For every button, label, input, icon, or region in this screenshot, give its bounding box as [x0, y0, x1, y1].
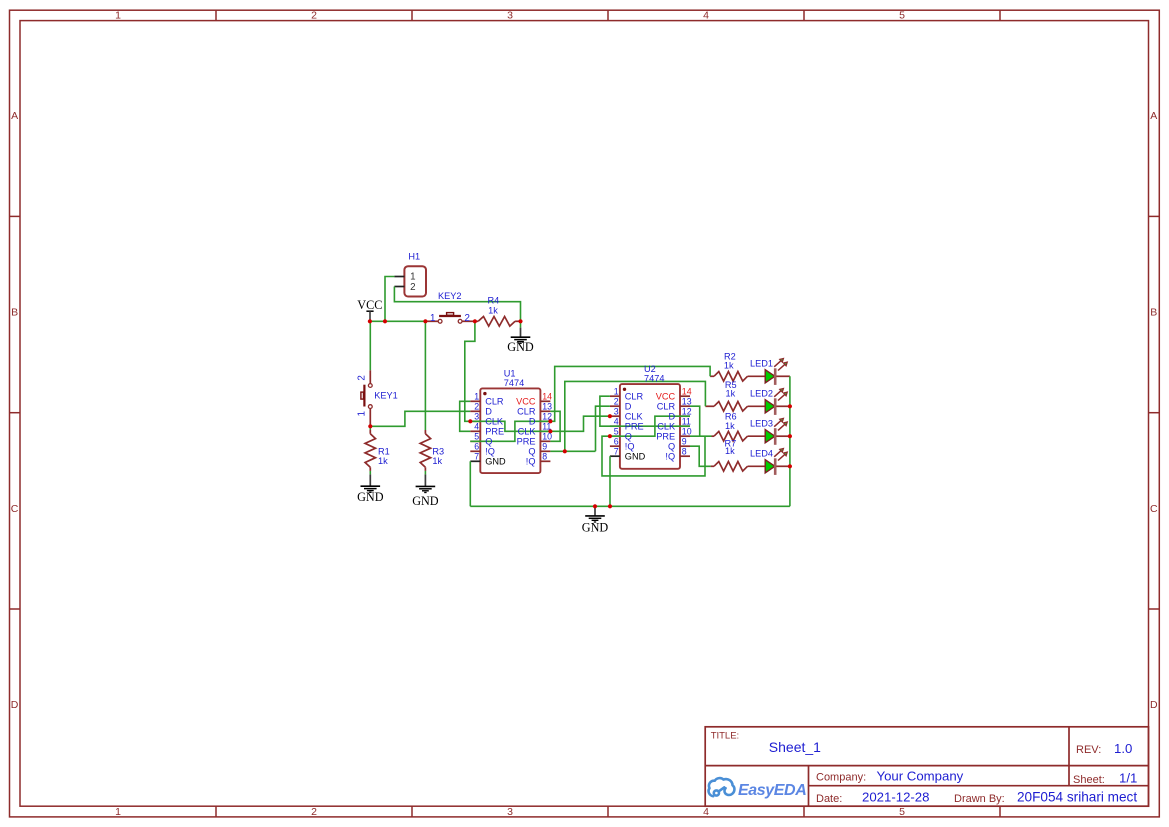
- svg-text:2: 2: [311, 806, 317, 818]
- svg-text:U2: U2: [644, 364, 656, 374]
- svg-text:CLR: CLR: [657, 402, 676, 412]
- svg-text:GND: GND: [485, 457, 506, 467]
- svg-text:4: 4: [703, 10, 709, 22]
- svg-text:LED4: LED4: [750, 449, 773, 459]
- svg-text:TITLE:: TITLE:: [711, 730, 740, 741]
- svg-text:Drawn By:: Drawn By:: [954, 793, 1005, 805]
- svg-text:PRE: PRE: [625, 422, 644, 432]
- svg-text:1: 1: [115, 806, 121, 818]
- svg-text:4: 4: [703, 806, 709, 818]
- svg-text:1k: 1k: [432, 456, 442, 466]
- svg-text:Sheet_1: Sheet_1: [769, 739, 821, 755]
- svg-text:1k: 1k: [725, 446, 735, 456]
- svg-text:!Q: !Q: [665, 452, 675, 462]
- svg-text:Company:: Company:: [816, 772, 866, 784]
- svg-text:12: 12: [682, 407, 692, 417]
- svg-text:2: 2: [410, 282, 415, 293]
- svg-text:7474: 7474: [504, 378, 524, 388]
- svg-text:2: 2: [614, 397, 619, 407]
- svg-text:9: 9: [542, 442, 547, 452]
- svg-text:CLR: CLR: [625, 392, 644, 402]
- svg-text:2: 2: [311, 10, 317, 22]
- svg-text:VCC: VCC: [516, 397, 536, 407]
- svg-text:B: B: [11, 307, 18, 319]
- svg-text:1: 1: [474, 392, 479, 402]
- svg-text:6: 6: [614, 437, 619, 447]
- svg-text:D: D: [529, 417, 536, 427]
- svg-text:D: D: [1150, 699, 1158, 711]
- svg-text:4: 4: [474, 422, 479, 432]
- svg-text:Date:: Date:: [816, 793, 842, 805]
- svg-text:1/1: 1/1: [1119, 771, 1137, 786]
- svg-text:14: 14: [682, 387, 692, 397]
- svg-text:14: 14: [542, 392, 552, 402]
- svg-text:1k: 1k: [726, 389, 736, 399]
- svg-text:CLK: CLK: [625, 412, 644, 422]
- svg-text:10: 10: [542, 432, 552, 442]
- svg-text:Q: Q: [668, 442, 675, 452]
- svg-text:Q: Q: [528, 447, 535, 457]
- svg-text:Your Company: Your Company: [877, 769, 964, 784]
- svg-text:Sheet:: Sheet:: [1073, 774, 1105, 786]
- svg-text:VCC: VCC: [656, 392, 676, 402]
- svg-text:!Q: !Q: [526, 457, 536, 467]
- svg-text:7: 7: [614, 447, 619, 457]
- svg-text:5: 5: [899, 10, 905, 22]
- svg-text:B: B: [1150, 307, 1157, 319]
- svg-text:CLK: CLK: [518, 427, 537, 437]
- svg-text:7: 7: [474, 452, 479, 462]
- svg-text:GND: GND: [412, 494, 439, 508]
- svg-text:R3: R3: [432, 446, 444, 456]
- svg-text:1: 1: [614, 387, 619, 397]
- svg-text:H1: H1: [408, 251, 420, 261]
- svg-text:2021-12-28: 2021-12-28: [862, 790, 929, 805]
- svg-text:11: 11: [542, 422, 551, 432]
- svg-text:CLR: CLR: [485, 397, 504, 407]
- svg-text:CLK: CLK: [657, 422, 676, 432]
- svg-text:8: 8: [542, 452, 547, 462]
- svg-text:1k: 1k: [724, 360, 734, 370]
- svg-text:CLK: CLK: [485, 417, 504, 427]
- svg-text:LED1: LED1: [750, 359, 773, 369]
- svg-text:4: 4: [614, 417, 619, 427]
- svg-text:20F054 srihari mect: 20F054 srihari mect: [1017, 790, 1137, 805]
- svg-text:D: D: [485, 407, 492, 417]
- svg-text:3: 3: [474, 412, 479, 422]
- svg-text:A: A: [11, 110, 18, 122]
- svg-text:3: 3: [614, 407, 619, 417]
- svg-text:C: C: [11, 503, 19, 515]
- svg-text:PRE: PRE: [485, 427, 504, 437]
- svg-text:1: 1: [430, 313, 435, 324]
- svg-text:GND: GND: [625, 452, 646, 462]
- svg-text:5: 5: [614, 427, 619, 437]
- svg-text:U1: U1: [504, 369, 516, 379]
- svg-text:!Q: !Q: [625, 442, 635, 452]
- svg-text:REV:: REV:: [1076, 744, 1101, 756]
- svg-text:PRE: PRE: [517, 437, 536, 447]
- svg-text:3: 3: [507, 10, 513, 22]
- svg-text:13: 13: [682, 397, 692, 407]
- svg-text:2: 2: [356, 375, 367, 380]
- svg-text:1.0: 1.0: [1114, 741, 1132, 756]
- svg-text:2: 2: [464, 313, 469, 324]
- svg-text:9: 9: [682, 437, 687, 447]
- svg-text:D: D: [668, 412, 675, 422]
- svg-text:2: 2: [474, 402, 479, 412]
- svg-text:1k: 1k: [488, 306, 498, 316]
- svg-text:11: 11: [682, 417, 691, 427]
- svg-text:6: 6: [474, 442, 479, 452]
- svg-text:D: D: [11, 699, 19, 711]
- svg-text:KEY2: KEY2: [438, 291, 462, 301]
- svg-text:Q: Q: [625, 432, 632, 442]
- svg-text:7474: 7474: [644, 373, 664, 383]
- svg-text:1k: 1k: [378, 456, 388, 466]
- svg-text:CLR: CLR: [517, 407, 536, 417]
- svg-text:1k: 1k: [725, 421, 735, 431]
- svg-text:8: 8: [682, 447, 687, 457]
- svg-text:KEY1: KEY1: [374, 391, 398, 401]
- svg-text:GND: GND: [507, 340, 534, 354]
- svg-text:10: 10: [682, 427, 692, 437]
- svg-text:1: 1: [356, 411, 367, 416]
- svg-text:R4: R4: [488, 296, 500, 306]
- svg-text:Q: Q: [485, 437, 492, 447]
- svg-text:C: C: [1150, 503, 1158, 515]
- svg-text:R1: R1: [378, 446, 390, 456]
- svg-text:GND: GND: [357, 490, 384, 504]
- svg-text:1: 1: [115, 10, 121, 22]
- svg-text:12: 12: [542, 412, 552, 422]
- svg-text:GND: GND: [582, 520, 609, 534]
- svg-text:5: 5: [474, 432, 479, 442]
- svg-text:VCC: VCC: [357, 298, 382, 312]
- svg-text:A: A: [1150, 110, 1157, 122]
- svg-text:13: 13: [542, 402, 552, 412]
- svg-text:!Q: !Q: [485, 447, 495, 457]
- svg-text:EasyEDA: EasyEDA: [738, 782, 806, 799]
- svg-text:LED3: LED3: [750, 418, 773, 428]
- svg-text:D: D: [625, 402, 632, 412]
- svg-text:3: 3: [507, 806, 513, 818]
- svg-text:PRE: PRE: [656, 432, 675, 442]
- svg-text:5: 5: [899, 806, 905, 818]
- svg-text:LED2: LED2: [750, 389, 773, 399]
